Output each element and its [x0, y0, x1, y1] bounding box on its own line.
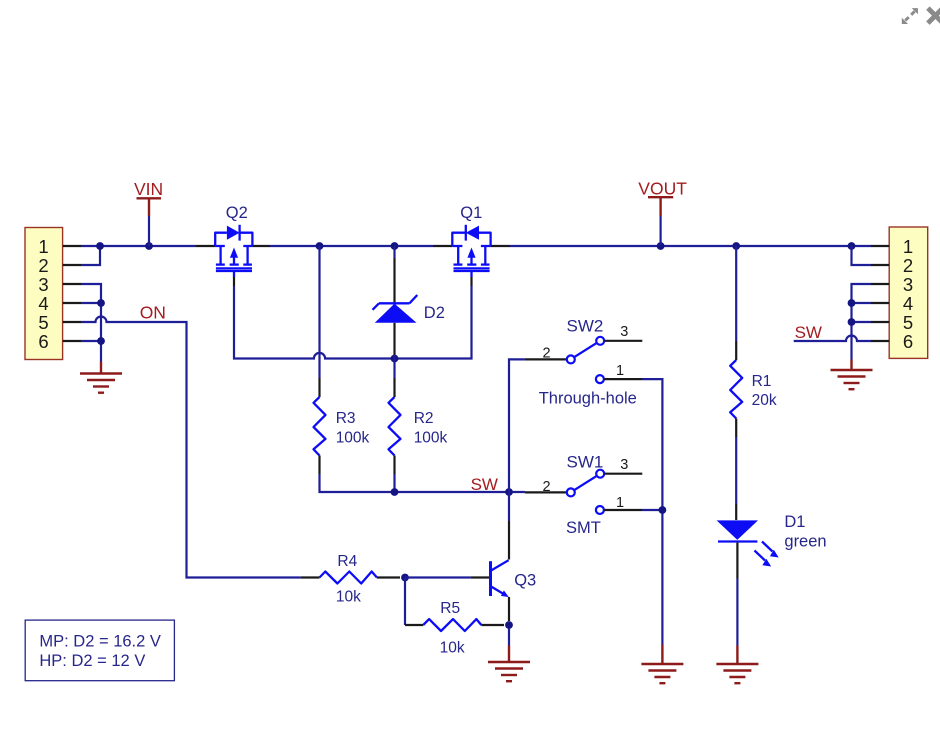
wire VOUT rail Q1 to J2	[510, 245, 871, 247]
svg-text:Q3: Q3	[514, 572, 536, 590]
connector J2 pin numbers 1-6	[903, 236, 913, 352]
svg-text:3: 3	[620, 457, 628, 473]
label SW2	[567, 317, 604, 336]
connector J2 pin 3 lead	[871, 283, 889, 285]
transistor Q1 (P-MOSFET with body diode, mirrored)	[452, 225, 490, 277]
wire R1 bottom to D1	[735, 419, 737, 521]
wire J1 pin3 to ground bus	[81, 284, 101, 362]
wire rail Q2 to Q1	[270, 245, 433, 247]
switch SW1 pin 3 contact	[596, 470, 604, 478]
wire J2 pin4 to ground bus	[852, 302, 872, 304]
node rail/VOUT junction	[657, 242, 665, 250]
transistor Q3 (NPN)	[491, 560, 509, 597]
svg-text:R5: R5	[440, 600, 460, 617]
wire R4 right lead	[377, 576, 400, 578]
label SW1	[567, 453, 604, 472]
node J2 pin4 junction	[848, 299, 856, 307]
svg-text:20k: 20k	[752, 392, 777, 409]
node rail/pin1 junction	[96, 242, 104, 250]
wire J1 pin6 to ground bus	[81, 340, 101, 342]
svg-text:4: 4	[38, 293, 48, 314]
wire R3 top (rail to resistor)	[318, 246, 320, 397]
svg-text:3: 3	[903, 274, 913, 295]
svg-text:6: 6	[38, 331, 48, 352]
svg-text:1: 1	[616, 363, 624, 379]
label R1 20k	[752, 373, 777, 409]
svg-text:D2: D2	[424, 304, 445, 322]
LED D1	[717, 520, 779, 566]
connector J1 pin numbers 1-6	[38, 236, 48, 352]
label R5 10k	[440, 600, 465, 657]
svg-text:2: 2	[903, 255, 913, 276]
label R3 100k	[336, 410, 370, 446]
wire SW net to J2 pin6 with hop over ground bus	[794, 336, 871, 342]
connector J2 pin 2 lead	[871, 264, 889, 266]
label R2 100k	[414, 410, 448, 446]
ground symbol at J1	[80, 362, 122, 393]
connector J2 pin 1 lead	[871, 245, 889, 247]
svg-text:1: 1	[903, 236, 913, 257]
node rail/R1 junction	[732, 242, 740, 250]
node Q3 emitter / R5 junction	[505, 621, 513, 629]
svg-text:ON: ON	[140, 303, 166, 323]
node gate/D2/R2 junction	[391, 355, 399, 363]
svg-text:SW2: SW2	[567, 317, 604, 336]
label net SW at J2	[795, 323, 822, 342]
wire ON net from J1 pin5 with hop, down to R4	[81, 317, 301, 578]
ground symbol at J2	[831, 360, 873, 390]
ground symbol at D1	[716, 646, 758, 684]
resistor R4	[320, 572, 377, 584]
resistor R2	[389, 397, 401, 456]
connector J1 pin 6 lead	[63, 340, 81, 342]
wire SW1 pin 2 lead	[525, 491, 566, 493]
wire Q1 lead right	[491, 245, 510, 247]
svg-text:2: 2	[542, 479, 550, 495]
wire Q2 gate lead	[233, 277, 235, 286]
label Through-hole	[539, 390, 637, 408]
wire D1 cathode to ground	[736, 543, 738, 646]
wire Q3 emitter lead	[508, 597, 510, 621]
note box MP/HP zener values	[25, 620, 174, 681]
svg-text:D1: D1	[784, 513, 805, 531]
label SMT	[566, 519, 601, 537]
svg-text:SMT: SMT	[566, 519, 601, 537]
label net SW	[471, 475, 498, 494]
svg-text:4: 4	[903, 293, 913, 314]
svg-text:1: 1	[38, 236, 48, 257]
node rail/VIN junction	[145, 242, 153, 250]
wire SW2 pin 1 lead	[604, 378, 642, 380]
svg-text:Q2: Q2	[226, 204, 248, 222]
switch SW1 lever	[572, 474, 600, 492]
node SW1 pin1 / ground bus junction	[659, 506, 667, 514]
svg-text:SW: SW	[795, 323, 822, 342]
svg-text:MP: D2 = 16.2 V: MP: D2 = 16.2 V	[39, 633, 161, 651]
connector J1 pin 2 lead	[63, 264, 81, 266]
svg-text:green: green	[784, 533, 826, 551]
svg-text:VIN: VIN	[134, 179, 163, 199]
transistor Q2 (P-MOSFET with body diode)	[215, 225, 252, 277]
label Q3	[514, 572, 536, 590]
svg-text:VOUT: VOUT	[638, 178, 687, 198]
wire R2 bottom to SW net	[393, 456, 395, 493]
svg-text:2: 2	[542, 346, 550, 362]
node J2 pin5 junction	[848, 318, 856, 326]
label Q1	[460, 204, 482, 222]
label net ON	[140, 303, 166, 323]
svg-text:100k: 100k	[414, 429, 448, 446]
node J1 pin4 junction	[97, 299, 105, 307]
wire R5 right lead	[481, 624, 504, 626]
wire J2 pin2 to pin1	[852, 246, 872, 265]
wire SW2 pin 2 lead	[525, 358, 566, 360]
wire SW1 pin1 to ground bus	[642, 509, 662, 511]
wire Q1 lead left	[433, 245, 452, 247]
switch SW2 pin 1 contact	[596, 375, 604, 383]
node SW/R2 junction	[391, 488, 399, 496]
connector J2 pin 5 lead	[871, 321, 889, 323]
wire SW vertical to SW2 pin2 and down to Q3	[509, 359, 525, 521]
connector J1 body	[25, 228, 63, 360]
switch SW2 lever	[572, 341, 600, 359]
resistor R3	[314, 397, 326, 456]
power symbol VOUT	[638, 178, 687, 246]
wire SW2 pin1 to ground bus	[642, 379, 662, 644]
wire R4 junction to Q3 base	[405, 576, 489, 578]
wire gate net Q2 to Q1 with hop over R3	[234, 286, 472, 359]
svg-text:Through-hole: Through-hole	[539, 390, 637, 408]
wire J2 pin5 to ground bus	[852, 321, 872, 323]
node SW net junction	[505, 488, 513, 496]
svg-text:R3: R3	[336, 410, 356, 427]
wire Q2 drain lead	[252, 245, 270, 247]
svg-text:3: 3	[38, 274, 48, 295]
wire VIN rail J1 pin1 to Q2	[81, 245, 196, 247]
node rail/R3 junction	[316, 242, 324, 250]
wire Q1 gate lead	[470, 277, 472, 286]
switch SW2 pin 2 contact	[567, 355, 575, 363]
label SW2 pin numbers	[542, 324, 628, 379]
wire R5 branch down	[405, 578, 423, 626]
svg-text:6: 6	[903, 331, 913, 352]
svg-text:3: 3	[620, 324, 628, 340]
zener diode D2	[373, 295, 418, 323]
icon close (top right)	[928, 8, 940, 23]
svg-text:100k: 100k	[336, 429, 370, 446]
icon expand (top right)	[902, 8, 918, 24]
node J1 pin6 junction	[97, 337, 105, 345]
svg-text:10k: 10k	[336, 589, 361, 606]
node rail/J2 pin1 junction	[848, 242, 856, 250]
node rail/D2 junction	[391, 242, 399, 250]
svg-text:R1: R1	[752, 373, 772, 390]
svg-text:5: 5	[38, 312, 48, 333]
label D2	[424, 304, 445, 322]
connector J2 body	[889, 227, 928, 358]
resistor R1	[730, 360, 742, 419]
wire R1 top (rail to resistor)	[735, 246, 737, 360]
svg-text:1: 1	[616, 495, 624, 511]
svg-text:R2: R2	[414, 410, 434, 427]
label Q2	[226, 204, 248, 222]
ground symbol at Q3	[488, 628, 530, 681]
node R4/R5/base junction	[401, 574, 409, 582]
svg-text:Q1: Q1	[460, 204, 482, 222]
connector J1 pin 1 lead	[63, 245, 81, 247]
switch SW2 pin 3 contact	[596, 337, 604, 345]
wire J1 pin4 to ground bus	[81, 302, 101, 304]
wire SW1 pin 1 lead	[604, 509, 642, 511]
connector J2 pin 6 lead	[871, 340, 889, 342]
wire J2 pin3 to ground bus	[852, 284, 872, 360]
label D1 green	[784, 513, 826, 551]
wire D2 anode lead	[393, 323, 395, 359]
switch SW1 pin 2 contact	[567, 488, 575, 496]
wire R4 left lead	[301, 576, 320, 578]
svg-text:10k: 10k	[440, 640, 465, 657]
svg-text:SW1: SW1	[567, 453, 604, 472]
svg-text:R4: R4	[337, 553, 357, 570]
ground symbol below switches	[641, 645, 683, 684]
power symbol VIN	[134, 179, 163, 246]
wire Q3 collector lead	[508, 521, 510, 560]
connector J2 pin 4 lead	[871, 302, 889, 304]
label SW1 pin numbers	[542, 457, 628, 511]
svg-text:HP: D2 = 12 V: HP: D2 = 12 V	[39, 652, 145, 670]
switch SW1 pin 1 contact	[596, 506, 604, 514]
svg-text:2: 2	[38, 255, 48, 276]
connector J1 pin 5 lead	[63, 321, 81, 323]
wire SW2 pin 3 lead	[605, 340, 643, 342]
connector J1 pin 4 lead	[63, 302, 81, 304]
wire D2 cathode lead	[393, 246, 395, 303]
svg-text:5: 5	[903, 312, 913, 333]
wire Q2 source lead	[196, 245, 215, 247]
wire SW1 pin 3 lead	[605, 473, 643, 475]
wire J1 pin2 to pin1	[81, 246, 100, 265]
connector J1 pin 3 lead	[63, 283, 81, 285]
label R4 10k	[336, 553, 361, 606]
wire R2 top (gate junction to resistor)	[393, 359, 395, 398]
resistor R5	[423, 619, 481, 631]
wire R3 bottom to SW net	[320, 456, 525, 493]
svg-text:SW: SW	[471, 475, 498, 494]
